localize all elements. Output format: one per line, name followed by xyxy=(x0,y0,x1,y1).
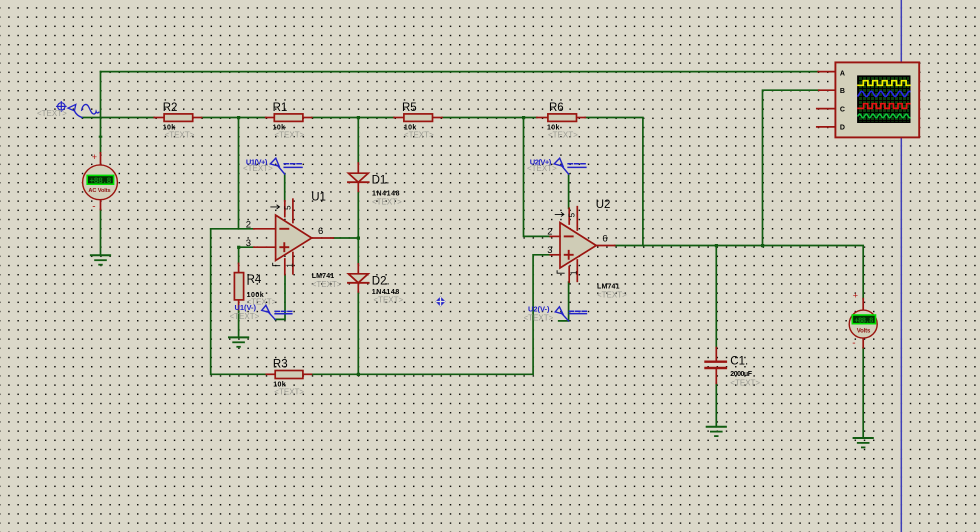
svg-text:<TEXT>: <TEXT> xyxy=(275,131,305,140)
svg-text:R3: R3 xyxy=(273,358,288,370)
ground below AC voltmeter xyxy=(91,255,110,264)
op-amp U1 offset arrow bottom xyxy=(273,263,280,266)
svg-text:-: - xyxy=(852,338,855,349)
origin marker diamond xyxy=(436,297,446,307)
svg-text:<TEXT>: <TEXT> xyxy=(230,312,260,321)
svg-text:<TEXT>: <TEXT> xyxy=(274,387,304,396)
wire U1 V- probe stub xyxy=(275,275,285,320)
junction C1 node xyxy=(715,244,718,247)
svg-text:U2(V-): U2(V-) xyxy=(528,305,550,314)
wire R3 to D2 node to U2 pin3 xyxy=(311,255,550,374)
wire R4 top xyxy=(238,247,240,263)
wire R4 bottom to ground xyxy=(238,310,240,338)
oscilloscope xyxy=(817,62,919,137)
voltage probe U1(V+) xyxy=(243,157,302,174)
svg-text:-: - xyxy=(92,202,95,213)
svg-text:U1: U1 xyxy=(311,192,326,204)
resistor R5 xyxy=(394,102,442,140)
svg-text:6: 6 xyxy=(602,234,607,245)
junction D2 bottom node xyxy=(357,373,360,376)
wire U2 V+ probe stub xyxy=(568,174,570,208)
op-amp U1 xyxy=(246,192,342,290)
oscilloscope screen xyxy=(858,76,910,122)
op-amp U2 offset arrow top xyxy=(555,213,564,217)
wire D2 bottom to R3 row xyxy=(357,292,359,374)
wire U1 pin2 row xyxy=(211,228,254,230)
svg-text:2: 2 xyxy=(547,227,552,238)
junction U1 out node xyxy=(357,237,360,240)
resistor R1 xyxy=(266,102,312,140)
svg-text:R2: R2 xyxy=(163,102,178,114)
svg-text:Volts: Volts xyxy=(857,328,871,334)
wire U1 V+ probe stub xyxy=(284,174,286,201)
wire node to D2 top xyxy=(357,238,359,264)
svg-text:<TEXT>: <TEXT> xyxy=(527,164,557,173)
sheet border blue line xyxy=(900,0,902,532)
op-amp U1 minus plus xyxy=(280,228,288,230)
svg-text:D1.: D1. xyxy=(372,175,390,187)
svg-text:6: 6 xyxy=(318,226,323,237)
wire left vertical source to meter xyxy=(100,72,102,153)
svg-text:<TEXT>: <TEXT> xyxy=(312,280,342,289)
svg-text:1: 1 xyxy=(285,263,294,268)
svg-text:D: D xyxy=(840,125,845,132)
svg-text:U2: U2 xyxy=(596,199,611,211)
wire junction to U2 pin2 xyxy=(524,118,551,237)
svg-text:<TEXT>: <TEXT> xyxy=(373,296,403,305)
svg-text:<TEXT>: <TEXT> xyxy=(372,197,402,206)
svg-text:+: + xyxy=(92,152,97,162)
junction U2 pin2 node xyxy=(522,116,525,119)
wire C1 top xyxy=(715,246,717,348)
wire top rail A xyxy=(101,71,819,73)
wire AC meter bottom to ground xyxy=(100,210,102,256)
op-amp U2 xyxy=(547,199,627,299)
node tick below source xyxy=(99,136,103,138)
wire scope B vertical xyxy=(763,90,819,245)
svg-text:+88.8: +88.8 xyxy=(854,317,874,325)
wire R6 to corner and down to U2 out xyxy=(585,118,643,246)
svg-text:2000uF: 2000uF xyxy=(730,371,752,378)
svg-text:<TEXT>: <TEXT> xyxy=(404,131,434,140)
ground below R4 xyxy=(229,337,248,346)
svg-text:<TEXT>: <TEXT> xyxy=(243,164,273,173)
wire U1 out to node xyxy=(333,237,358,239)
wire U1 pin3 to R4 xyxy=(239,246,254,248)
svg-text:R1: R1 xyxy=(273,102,288,114)
wire main input row xyxy=(82,117,154,119)
diode D1 xyxy=(348,163,402,206)
voltage probe U1(V-) xyxy=(230,303,292,321)
ground below DC voltmeter xyxy=(854,438,873,447)
svg-text:5: 5 xyxy=(283,205,292,210)
svg-text:5: 5 xyxy=(568,212,577,217)
AC voltmeter xyxy=(83,152,118,213)
svg-text:+: + xyxy=(853,290,858,300)
svg-text:C1.: C1. xyxy=(730,355,748,367)
svg-text:<TEXT>: <TEXT> xyxy=(597,290,627,299)
wire U2 V- probe stub xyxy=(559,282,569,321)
junction D1 top node xyxy=(357,116,360,119)
scope trace B blue xyxy=(858,91,910,96)
wire junction to U1 pin2 xyxy=(238,118,240,229)
resistor R3 xyxy=(266,358,311,396)
op-amp U2 minus plus xyxy=(565,235,573,237)
wire R2 to R1 xyxy=(202,117,266,119)
junction scope B node xyxy=(761,244,764,247)
wire C1 bottom to ground xyxy=(715,383,717,426)
svg-text:2: 2 xyxy=(246,219,251,230)
svg-text:+88.8: +88.8 xyxy=(89,177,111,186)
wire U2 output row to DC voltmeter xyxy=(615,246,864,299)
AC source generator symbol xyxy=(57,102,99,118)
scope trace D green xyxy=(858,114,910,118)
scope trace C red xyxy=(858,104,910,109)
op-amp U2 offset arrow bottom xyxy=(557,271,564,274)
wire D1 bottom to U1 out node xyxy=(357,191,359,238)
wire R1 to R5 xyxy=(312,117,394,119)
ground below C1 xyxy=(707,427,726,436)
svg-text:<TEXT>: <TEXT> xyxy=(524,313,554,322)
svg-text:3: 3 xyxy=(547,245,552,256)
svg-text:<TEXT>: <TEXT> xyxy=(37,109,67,118)
DC voltmeter xyxy=(849,290,877,349)
svg-text:R4: R4 xyxy=(247,274,262,286)
wire pin2 node down to R3 row xyxy=(211,229,267,374)
svg-text:AC Volts: AC Volts xyxy=(88,188,110,194)
capacitor C1 xyxy=(706,348,761,388)
junction R4 top node xyxy=(237,246,240,249)
svg-text:<TEXT>: <TEXT> xyxy=(548,131,578,140)
resistor R2 xyxy=(154,102,201,140)
resistor R4 (vertical) xyxy=(234,263,276,309)
svg-text:A: A xyxy=(840,70,845,77)
svg-text:<TEXT>: <TEXT> xyxy=(165,131,195,140)
diode D2 xyxy=(348,264,404,305)
svg-text:D2.: D2. xyxy=(372,275,390,287)
svg-text:1: 1 xyxy=(570,270,579,275)
voltage probe U2(V+) xyxy=(527,157,586,174)
scope trace A yellow xyxy=(858,81,910,86)
svg-text:3: 3 xyxy=(246,238,251,249)
svg-text:C: C xyxy=(840,106,845,113)
wire DC meter bottom to ground xyxy=(862,348,864,438)
resistor R6 xyxy=(537,102,585,140)
svg-text:R5: R5 xyxy=(402,102,417,114)
op-amp U1 offset arrow top xyxy=(271,205,280,209)
svg-text:R6: R6 xyxy=(549,102,564,114)
wire R5 to R6 xyxy=(442,117,537,119)
junction R2-R1 node xyxy=(237,116,240,119)
svg-text:U1(V-): U1(V-) xyxy=(235,303,257,312)
svg-text:B: B xyxy=(840,88,845,95)
voltage probe U2(V-) xyxy=(524,305,587,323)
wire D1 top xyxy=(357,118,359,164)
svg-text:<TEXT>: <TEXT> xyxy=(730,379,760,388)
